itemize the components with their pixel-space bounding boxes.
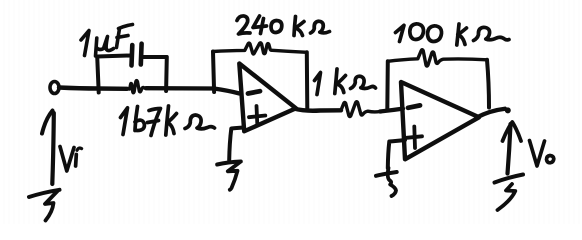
label Vi: [60, 147, 82, 172]
wire capacitor branch right vertical: [164, 57, 169, 91]
arrow Vo: [503, 122, 522, 174]
value label 240 kohm: [237, 16, 330, 36]
ground (input): [29, 190, 60, 221]
op-amp U1: [239, 64, 296, 132]
resistor R2 240k feedback top: [213, 43, 307, 54]
value label 1kohm: [315, 69, 376, 95]
wire feedback right vertical (U2): [487, 60, 489, 108]
pin minus (U2): [408, 105, 420, 107]
wire capacitor branch left vertical: [97, 57, 99, 93]
wire U2 output: [477, 109, 505, 118]
pin minus (U1): [248, 91, 260, 93]
label Vo: [530, 141, 554, 167]
value label 167k ohm: [121, 106, 215, 136]
resistor R4 100k feedback top: [388, 50, 487, 66]
arrow Vi: [42, 111, 54, 185]
wire U1 output: [294, 109, 341, 111]
ground (U1 plus): [217, 162, 241, 190]
wire feedback left vertical (U2): [385, 61, 390, 110]
op-amp U2: [401, 82, 479, 159]
wire capacitor branch top-left: [97, 56, 130, 57]
pin plus (U2): [407, 127, 423, 149]
wire to U2 minus: [380, 109, 403, 112]
node Vout terminal: [505, 107, 511, 113]
wire capacitor branch top-right: [143, 55, 167, 59]
wire U1 plus to ground: [229, 128, 244, 161]
value label 100 kohm: [396, 24, 510, 45]
ground (output): [495, 175, 524, 211]
capacitor C1: [132, 44, 142, 66]
ground (U2 plus): [376, 168, 397, 196]
node Vin terminal: [50, 82, 59, 94]
value label 1uF: [81, 25, 133, 57]
wire main to U1 minus: [146, 88, 240, 93]
wire U2 plus to ground: [388, 140, 405, 168]
resistor R3 1k: [341, 102, 380, 117]
wire feedback left vertical (U1): [213, 52, 214, 93]
wire feedback right vertical (U1): [305, 52, 310, 110]
pin plus (U1): [249, 106, 265, 124]
resistor R1 inline squiggle (167k): [127, 81, 147, 93]
wire main input line: [59, 88, 127, 89]
